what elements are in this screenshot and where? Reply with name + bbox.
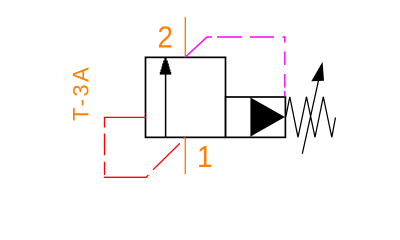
spring zigzag <box>286 97 336 138</box>
drain line (red dashed): top horizontal + corner <box>105 117 147 127</box>
pilot line dash <box>284 91 286 97</box>
port 2 line <box>184 17 186 57</box>
flow arrowhead (stepped) <box>160 58 171 75</box>
drain line diagonal end tick <box>183 137 185 138</box>
drain line diagonal dash <box>153 143 180 169</box>
pilot/solenoid box <box>226 97 286 137</box>
adjustment arrowhead <box>311 62 324 82</box>
valve body (main square envelope) <box>146 57 226 137</box>
pilot line dash <box>284 74 286 88</box>
port 1 line <box>184 138 186 175</box>
drain line dash <box>104 162 106 175</box>
svg-text:1: 1 <box>197 140 213 175</box>
drain line bottom corner + horizontal + diagonal start <box>105 175 149 177</box>
svg-text:2: 2 <box>158 20 174 55</box>
pilot line dash <box>250 36 274 38</box>
pilot line dash <box>217 36 242 38</box>
pilot line dash <box>284 52 286 66</box>
pilot line (magenta dashed): diagonal + first dash <box>186 37 212 57</box>
pilot line corner dash <box>283 37 285 43</box>
svg-text:T-3A: T-3A <box>69 65 94 121</box>
check triangle in pilot box <box>250 98 285 137</box>
drain line dash <box>104 134 106 156</box>
adjustment arrow shaft <box>302 81 318 154</box>
flow path line <box>165 74 167 137</box>
